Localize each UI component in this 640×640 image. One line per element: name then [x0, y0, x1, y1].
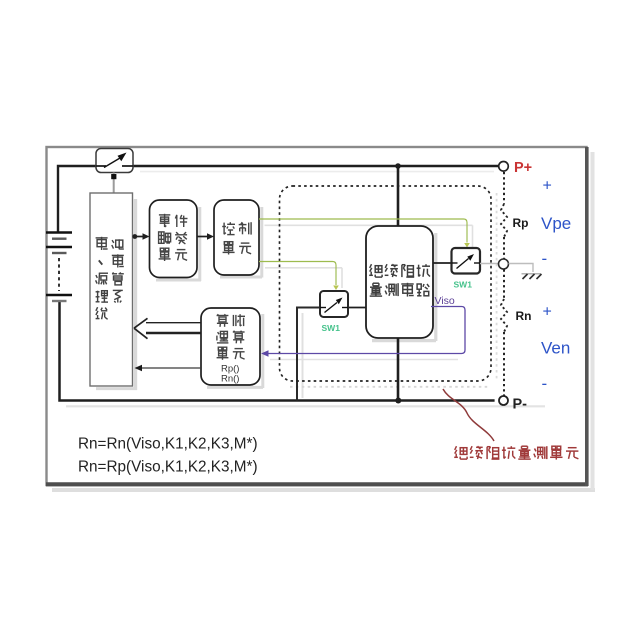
label: P- [513, 397, 528, 413]
switch SW1 (left) [320, 291, 348, 317]
svg-text:Rn(): Rn() [221, 374, 239, 385]
label: SW1 (right) [454, 280, 473, 290]
wire: SW1 branch to bottom bus [297, 308, 320, 401]
wire: SW1 (right) to mid node [480, 263, 499, 265]
label: - (Vpe) [542, 249, 548, 268]
node: chassis mid point [499, 259, 509, 269]
svg-text:SW1: SW1 [322, 323, 341, 333]
label: insulation impedance measurement unit (red) [454, 446, 578, 459]
wire: Viso feedback to arithmetic unit [261, 307, 465, 357]
wire: control signal to SW1 (right) [259, 219, 470, 248]
label: Ven [541, 339, 570, 358]
label: SW1 (left) [322, 323, 341, 333]
svg-text:Rn=Rp(Viso,K1,K2,K3,M*): Rn=Rp(Viso,K1,K2,K3,M*) [78, 459, 258, 476]
wire: measurement circuit bottom stem [397, 338, 400, 401]
svg-text:Ven: Ven [541, 339, 570, 358]
wire: measurement circuit to SW1 (left) [348, 307, 366, 309]
svg-text:Rn: Rn [516, 309, 532, 323]
wire: event trigger to control unit [197, 233, 214, 240]
boundary: insulation measurement unit (dashed) [280, 186, 492, 381]
junction: bottom bus / measurement stem [395, 398, 401, 404]
switch SW1 (right) [452, 248, 481, 274]
svg-text:Vpe: Vpe [541, 214, 571, 233]
label: P+ [514, 160, 532, 176]
wire: mid node to chassis ground [509, 264, 534, 273]
label: - (Ven) [542, 374, 548, 393]
svg-text:-: - [542, 249, 548, 268]
block: insulation impedance measurement circuit [366, 226, 433, 338]
svg-text:P-: P- [513, 397, 528, 413]
label: Viso [435, 295, 455, 307]
ground: chassis [522, 274, 542, 279]
svg-text:P+: P+ [514, 160, 532, 176]
wire: arithmetic unit result to BMS (block arrow) [134, 318, 201, 338]
junction: switch control tap [111, 174, 116, 179]
label: Vpe [541, 214, 571, 233]
terminal P- [499, 396, 508, 405]
wire: measurement circuit top stem [397, 166, 400, 226]
terminal P+ [499, 162, 509, 172]
block: battery / power management system [90, 193, 133, 386]
wire: BMS to event trigger unit [132, 233, 149, 240]
label: + (Vpe) [543, 178, 552, 195]
svg-text:Rn=Rn(Viso,K1,K2,K3,M*): Rn=Rn(Viso,K1,K2,K3,M*) [78, 436, 258, 453]
formula: Rn [78, 436, 258, 453]
svg-text:SW1: SW1 [454, 280, 473, 290]
label: Rp [513, 216, 529, 230]
formula: Rp [78, 459, 258, 476]
block: event trigger unit [150, 200, 198, 278]
junction: top bus / measurement stem [395, 163, 401, 169]
label: + (Ven) [543, 304, 552, 321]
block: arithmetic operation unit [201, 308, 260, 385]
wire: top bus from battery to P+ [58, 166, 499, 232]
battery: traction battery stack [46, 233, 72, 302]
annotation leader: insulation measurement unit [443, 389, 494, 441]
svg-text:+: + [543, 304, 552, 321]
svg-text:-: - [542, 374, 548, 393]
wire: arithmetic unit status to BMS [135, 365, 202, 371]
switch: main disconnect on top bus [96, 149, 133, 173]
wire: bottom bus from battery to P- [60, 301, 495, 401]
resistor Rn (parasitic, dotted) [501, 270, 507, 397]
wire: measurement circuit to SW1 (right) [433, 262, 452, 264]
label: Rn [516, 309, 532, 323]
svg-text:+: + [543, 178, 552, 195]
wire: switch control stem to BMS [113, 173, 115, 194]
wire: control signal to SW1 (left) [259, 262, 339, 291]
block: control unit [214, 200, 259, 275]
resistor Rp (parasitic, dotted) [501, 172, 507, 259]
svg-text:Viso: Viso [435, 295, 455, 307]
svg-text:Rp: Rp [513, 216, 529, 230]
